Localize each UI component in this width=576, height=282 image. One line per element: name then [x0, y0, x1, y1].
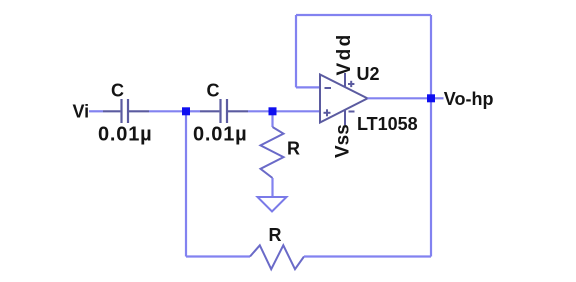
marker + (Vdd pin): [348, 81, 354, 87]
wire bottom right horizontal: [304, 255, 431, 257]
wire feedback left vertical: [295, 15, 297, 87]
wire junction B down to R1: [271, 111, 273, 127]
svg-text:R: R: [287, 139, 300, 159]
junction output node: [427, 94, 435, 102]
svg-text:Vi: Vi: [73, 101, 90, 121]
ground: [258, 197, 287, 212]
wire C1 to junction A: [149, 110, 186, 112]
wire junction B to op-amp noninverting input: [273, 110, 321, 112]
svg-text:0.01µ: 0.01µ: [98, 123, 152, 145]
svg-text:Vss: Vss: [333, 124, 354, 158]
junction B: [269, 107, 277, 115]
wire R1 to ground: [271, 178, 273, 197]
wire output rail vertical lower: [430, 98, 432, 256]
svg-text:LT1058: LT1058: [357, 114, 418, 134]
resistor R2 horizontal zigzag: [250, 245, 304, 269]
wire junction A to C2: [186, 110, 200, 112]
capacitor C1: [103, 99, 149, 123]
junction A: [182, 107, 190, 115]
pin Vdd: [344, 73, 346, 87]
wire op-amp output: [368, 97, 432, 99]
wire feedback top horizontal: [296, 14, 431, 16]
wire bottom left horizontal: [186, 255, 250, 257]
svg-text:C: C: [111, 80, 124, 100]
op-amp U1 triangle: [320, 75, 368, 123]
capacitor C2: [200, 99, 248, 123]
wire stub to Vo-hp: [431, 97, 444, 99]
svg-text:Vo-hp: Vo-hp: [444, 89, 494, 109]
wire feedback to inverting input: [296, 86, 320, 88]
resistor R1 vertical zigzag: [261, 127, 284, 178]
wire left rail vertical: [185, 111, 187, 256]
svg-text:R: R: [269, 225, 282, 245]
marker - (Vss pin): [349, 111, 355, 113]
wire C2 to junction B: [248, 110, 273, 112]
wire Vi to C1: [89, 110, 103, 112]
op-amp inverting input marker -: [325, 87, 332, 89]
svg-text:C: C: [207, 80, 220, 100]
pin Vss: [344, 110, 346, 125]
svg-text:Vdd: Vdd: [334, 32, 355, 75]
svg-text:0.01µ: 0.01µ: [193, 123, 247, 145]
svg-text:U2: U2: [357, 64, 380, 84]
wire output rail vertical upper: [430, 15, 432, 98]
op-amp noninverting input marker +: [324, 109, 331, 116]
